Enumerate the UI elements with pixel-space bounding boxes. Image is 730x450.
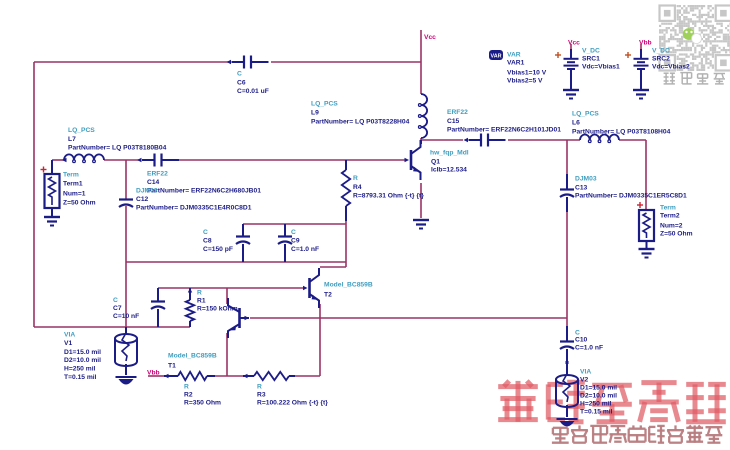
svg-text:DJM03: DJM03	[575, 176, 597, 183]
svg-text:L7: L7	[68, 136, 76, 143]
svg-text:VAR1: VAR1	[507, 60, 525, 67]
svg-text:PartNumber= LQ P03T8180B04: PartNumber= LQ P03T8180B04	[68, 145, 167, 152]
svg-text:Z=50 Ohm: Z=50 Ohm	[63, 200, 96, 207]
svg-text:Vdc=Vbias1: Vdc=Vbias1	[582, 64, 620, 71]
svg-text:SRC1: SRC1	[582, 56, 600, 63]
svg-text:V_DC: V_DC	[582, 48, 600, 55]
svg-text:PartNumber= LQ P03T8228H04: PartNumber= LQ P03T8228H04	[311, 119, 410, 126]
svg-text:PartNumber= LQ P03T8108H04: PartNumber= LQ P03T8108H04	[572, 129, 671, 136]
svg-text:V_DC: V_DC	[652, 48, 670, 55]
svg-text:VIA: VIA	[64, 332, 75, 339]
svg-text:R2: R2	[184, 392, 193, 399]
svg-text:IcIb=12.534: IcIb=12.534	[431, 167, 467, 174]
svg-text:L6: L6	[572, 120, 580, 127]
svg-text:D2=10.0 mil: D2=10.0 mil	[64, 357, 101, 364]
svg-text:D2=10.0 mil: D2=10.0 mil	[580, 393, 617, 400]
svg-text:R: R	[184, 384, 189, 391]
svg-text:VIA: VIA	[580, 369, 591, 376]
svg-text:DJM03: DJM03	[136, 188, 158, 195]
svg-text:VAR: VAR	[507, 52, 521, 59]
svg-text:C: C	[575, 330, 580, 337]
svg-text:D1=15.0 mil: D1=15.0 mil	[64, 349, 101, 356]
svg-text:R=350 Ohm: R=350 Ohm	[184, 400, 221, 407]
svg-text:R: R	[197, 290, 202, 297]
svg-text:Model_BC859B: Model_BC859B	[168, 353, 217, 360]
svg-text:R=150 kOhm: R=150 kOhm	[197, 306, 238, 313]
svg-text:C=10 nF: C=10 nF	[113, 313, 139, 320]
svg-text:C: C	[113, 297, 118, 304]
svg-text:R3: R3	[257, 392, 266, 399]
svg-text:C8: C8	[203, 238, 212, 245]
svg-text:PartNumber= DJM0335C1E4R0C8D1: PartNumber= DJM0335C1E4R0C8D1	[136, 205, 252, 212]
svg-text:Q1: Q1	[431, 159, 440, 166]
svg-text:ERF22: ERF22	[147, 171, 168, 178]
svg-text:LQ_PCS: LQ_PCS	[572, 111, 599, 118]
svg-text:C15: C15	[447, 118, 460, 125]
svg-text:LQ_PCS: LQ_PCS	[68, 127, 95, 134]
svg-text:C6: C6	[237, 80, 246, 87]
svg-text:R: R	[257, 384, 262, 391]
svg-text:PartNumber= ERF22N6C2H680JB01: PartNumber= ERF22N6C2H680JB01	[147, 188, 261, 195]
svg-text:Term1: Term1	[63, 181, 83, 188]
svg-text:Vbb: Vbb	[147, 370, 160, 377]
svg-text:C=1.0 nF: C=1.0 nF	[291, 246, 319, 253]
svg-text:L9: L9	[311, 110, 319, 117]
svg-text:T=0.15 mil: T=0.15 mil	[580, 409, 613, 416]
svg-text:Vcc: Vcc	[568, 40, 580, 47]
svg-text:R4: R4	[353, 184, 362, 191]
svg-text:H=250 mil: H=250 mil	[580, 401, 612, 408]
svg-text:D1=15.0 mil: D1=15.0 mil	[580, 385, 617, 392]
svg-text:C=150 pF: C=150 pF	[203, 246, 233, 253]
svg-text:Vdc=Vbias2: Vdc=Vbias2	[652, 64, 690, 71]
svg-text:C13: C13	[575, 185, 588, 192]
svg-text:Model_BC859B: Model_BC859B	[324, 282, 373, 289]
svg-text:V1: V1	[64, 340, 72, 347]
svg-text:C: C	[203, 229, 208, 236]
svg-text:hw_fqp_Mdl: hw_fqp_Mdl	[430, 150, 469, 157]
svg-text:Vbias2=5 V: Vbias2=5 V	[507, 78, 543, 85]
svg-text:PartNumber= DJM0335C1ER5C8D1: PartNumber= DJM0335C1ER5C8D1	[575, 193, 687, 200]
svg-text:Num=2: Num=2	[660, 223, 683, 230]
svg-text:Z=50 Ohm: Z=50 Ohm	[660, 231, 693, 238]
svg-text:C=0.01 uF: C=0.01 uF	[237, 88, 269, 95]
svg-text:VAR: VAR	[491, 54, 502, 60]
svg-text:Term: Term	[660, 205, 676, 212]
svg-text:Vbb: Vbb	[639, 40, 652, 47]
svg-text:C14: C14	[147, 179, 160, 186]
svg-text:R1: R1	[197, 298, 206, 305]
svg-text:C: C	[291, 229, 296, 236]
svg-text:SRC2: SRC2	[652, 56, 670, 63]
svg-text:C12: C12	[136, 196, 149, 203]
svg-text:Vcc: Vcc	[424, 34, 436, 41]
svg-text:R=8793.31 Ohm {-t} {t}: R=8793.31 Ohm {-t} {t}	[353, 193, 424, 200]
svg-text:H=250 mil: H=250 mil	[64, 366, 96, 373]
svg-text:C9: C9	[291, 238, 300, 245]
svg-text:ERF22: ERF22	[447, 109, 468, 116]
svg-text:Term2: Term2	[660, 213, 680, 220]
svg-text:T=0.15 mil: T=0.15 mil	[64, 374, 97, 381]
svg-text:C=1.0 nF: C=1.0 nF	[575, 345, 603, 352]
svg-text:C10: C10	[575, 337, 588, 344]
svg-text:C: C	[237, 71, 242, 78]
svg-text:PartNumber= ERF22N6C2H101JD01: PartNumber= ERF22N6C2H101JD01	[447, 127, 561, 134]
svg-text:R=100.222 Ohm {-t} {t}: R=100.222 Ohm {-t} {t}	[257, 400, 328, 407]
svg-text:V2: V2	[580, 377, 588, 384]
svg-text:LQ_PCS: LQ_PCS	[311, 101, 338, 108]
svg-text:T2: T2	[324, 292, 332, 299]
svg-text:Num=1: Num=1	[63, 191, 86, 198]
svg-text:R: R	[353, 175, 358, 182]
svg-text:Vbias1=10 V: Vbias1=10 V	[507, 70, 547, 77]
svg-text:Term: Term	[63, 172, 79, 179]
svg-text:T1: T1	[168, 363, 176, 370]
svg-text:C7: C7	[113, 305, 122, 312]
